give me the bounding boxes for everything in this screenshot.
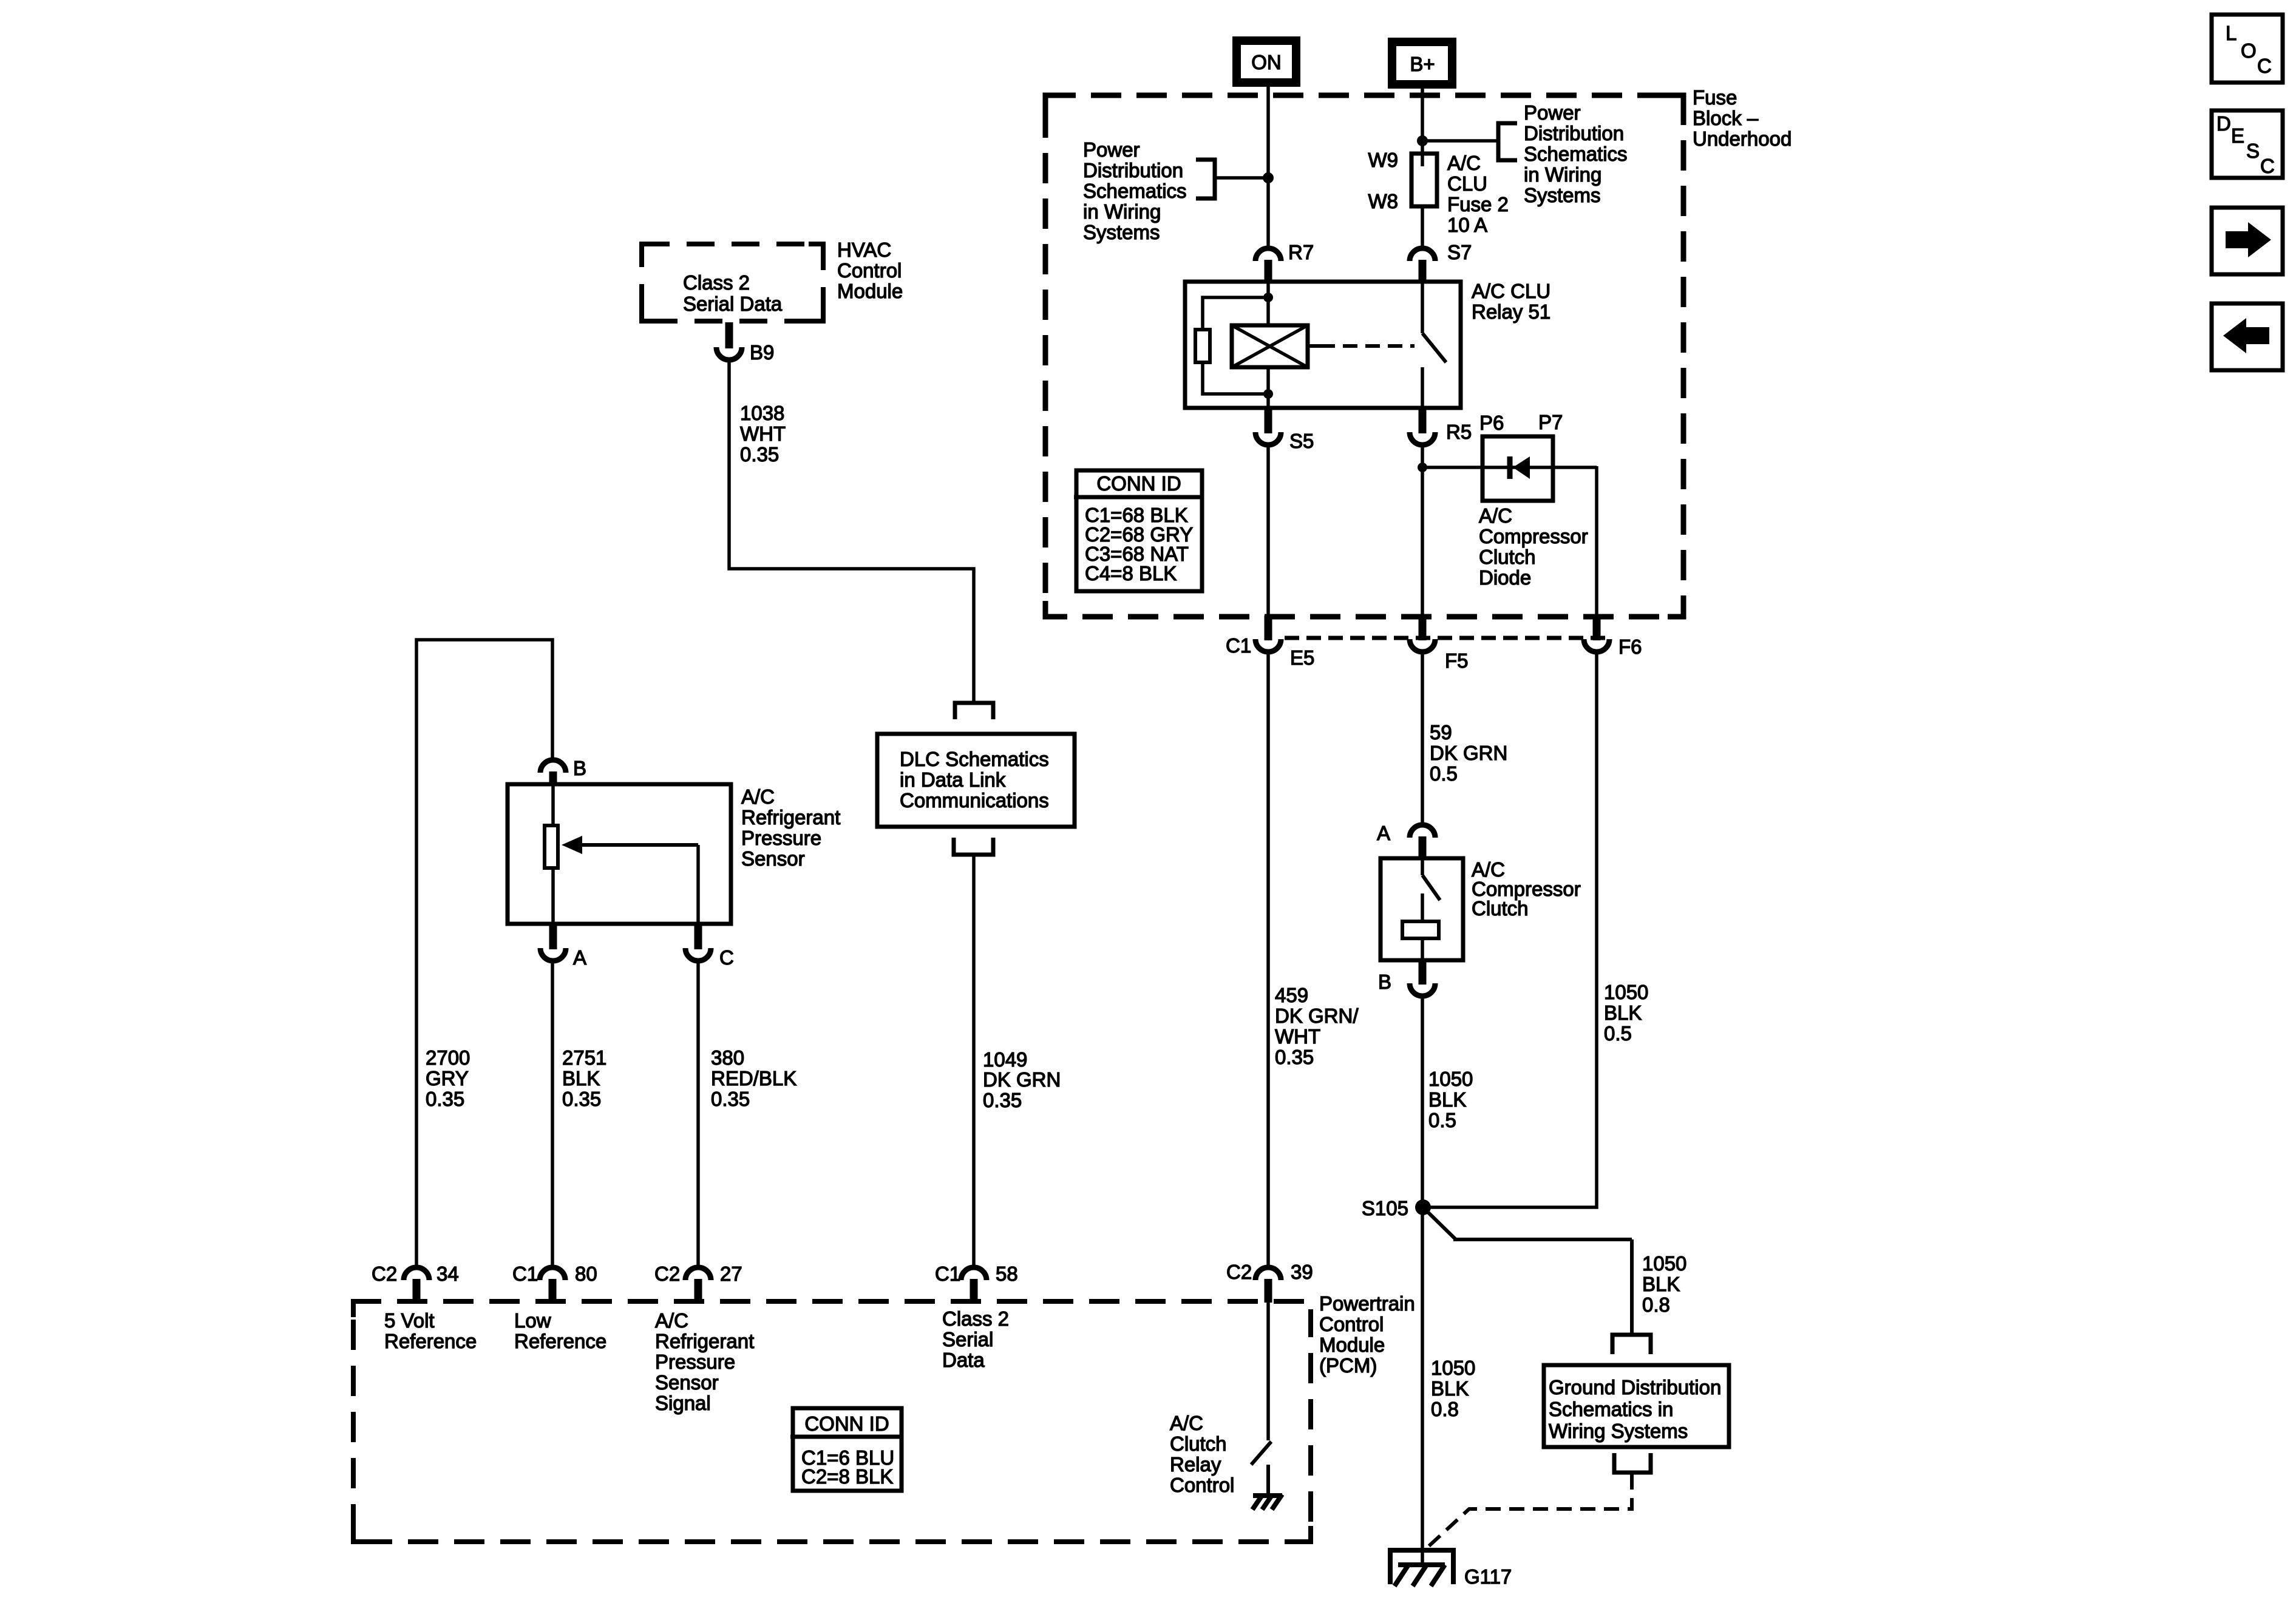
svg-text:2700: 2700 [426, 1046, 470, 1069]
node splice S105 [1415, 1199, 1431, 1215]
clutch switch blade [1422, 875, 1440, 900]
fuse block corner dashes [1045, 95, 1683, 617]
wire branch down to bracket [1630, 1239, 1634, 1333]
svg-text:A/C CLU: A/C CLU [1472, 280, 1550, 302]
svg-text:Control: Control [1170, 1474, 1234, 1496]
svg-text:A: A [1377, 822, 1390, 844]
svg-text:Sensor: Sensor [741, 847, 805, 870]
svg-text:Clutch: Clutch [1472, 897, 1529, 920]
wire resistor loop bottom [1203, 363, 1268, 394]
icon arrow-right box [2212, 208, 2283, 274]
off-page bracket below ground distribution [1614, 1453, 1651, 1473]
svg-text:Relay: Relay [1170, 1453, 1221, 1476]
svg-text:CLU: CLU [1447, 172, 1487, 195]
svg-text:BLK: BLK [1642, 1273, 1680, 1295]
svg-text:Serial: Serial [942, 1328, 993, 1351]
svg-text:Fuse 2: Fuse 2 [1447, 193, 1509, 215]
svg-text:DLC Schematics: DLC Schematics [900, 748, 1049, 770]
svg-text:S105: S105 [1362, 1197, 1408, 1219]
label A/C Refrigerant Pressure Sensor [741, 785, 840, 870]
svg-text:G117: G117 [1464, 1565, 1512, 1588]
label A/C Refrigerant Pressure Sensor Signal [655, 1309, 754, 1414]
svg-text:DK GRN/: DK GRN/ [1275, 1005, 1359, 1027]
connector pin A clutch [1377, 822, 1435, 858]
svg-text:1038: 1038 [740, 402, 784, 424]
fuse F2 A/C CLU Fuse 2 10A [1411, 153, 1437, 206]
label fuse value [1447, 152, 1509, 236]
svg-text:E: E [2231, 124, 2244, 147]
svg-text:Signal: Signal [655, 1392, 711, 1414]
svg-text:Distribution: Distribution [1083, 159, 1183, 181]
power symbol ON [1237, 41, 1296, 83]
svg-text:W9: W9 [1368, 149, 1399, 171]
svg-text:Class 2: Class 2 [942, 1307, 1009, 1330]
wire diode branch horizontal [1422, 466, 1597, 469]
svg-text:P7: P7 [1538, 411, 1563, 433]
svg-text:C2: C2 [654, 1263, 680, 1285]
svg-text:C2: C2 [372, 1263, 397, 1285]
wire ON down [1266, 87, 1270, 246]
DLC schematics box [877, 734, 1075, 827]
svg-text:Schematics: Schematics [1524, 143, 1628, 165]
wire F6 down and left to S105 [1428, 652, 1597, 1207]
svg-text:58: 58 [996, 1263, 1018, 1285]
svg-text:Clutch: Clutch [1170, 1432, 1227, 1455]
svg-text:1050: 1050 [1428, 1068, 1473, 1090]
svg-text:Pressure: Pressure [655, 1351, 735, 1373]
potentiometer wiper arrow [562, 836, 698, 854]
label 1038 WHT 0.35 [740, 402, 786, 466]
node coil top junction [1263, 293, 1273, 302]
label 1049 DK GRN 0.35 [983, 1048, 1061, 1111]
svg-text:10 A: 10 A [1447, 214, 1487, 236]
svg-text:R5: R5 [1446, 421, 1472, 443]
svg-text:B+: B+ [1410, 53, 1435, 75]
svg-text:1049: 1049 [983, 1048, 1027, 1071]
potentiometer sensor [545, 825, 558, 868]
label 59 DK GRN 0.5 [1430, 721, 1507, 785]
relay control switch lower pin [1266, 1465, 1270, 1494]
wire resistor loop top [1203, 297, 1268, 329]
chassis ground PCM [1252, 1494, 1282, 1510]
svg-text:1050: 1050 [1604, 981, 1648, 1003]
connector pin A sensor [540, 925, 586, 969]
wire wiper down [696, 845, 700, 926]
wire sensor pot to bottom [551, 870, 555, 926]
svg-text:C4=8 BLK: C4=8 BLK [1085, 562, 1177, 585]
svg-text:B: B [1378, 971, 1391, 993]
clutch coil [1402, 921, 1439, 938]
svg-text:Control: Control [837, 259, 902, 282]
svg-text:CONN ID: CONN ID [1096, 472, 1181, 495]
svg-text:Sensor: Sensor [655, 1371, 719, 1394]
svg-text:O: O [2241, 39, 2257, 62]
svg-text:Distribution: Distribution [1524, 122, 1624, 144]
fuse block underhood dashed border [1045, 95, 1683, 617]
svg-text:A/C: A/C [1447, 152, 1481, 174]
svg-text:(PCM): (PCM) [1319, 1354, 1377, 1377]
wire branch horizontal [1453, 1238, 1632, 1241]
connector pin C2-34 [372, 1263, 459, 1303]
svg-text:W8: W8 [1368, 190, 1399, 212]
label Low Reference [514, 1309, 606, 1352]
label 1050 BLK 0.8 main [1431, 1357, 1475, 1420]
svg-text:Clutch: Clutch [1479, 546, 1536, 568]
svg-text:0.5: 0.5 [1430, 762, 1458, 785]
connector pin R5 [1410, 408, 1472, 445]
svg-text:L: L [2226, 22, 2237, 44]
svg-text:in Wiring: in Wiring [1524, 163, 1601, 186]
clutch switch wire upper [1421, 858, 1424, 875]
label power distribution right [1524, 101, 1628, 206]
svg-text:0.35: 0.35 [711, 1088, 750, 1110]
ground distribution schematics box [1544, 1365, 1729, 1447]
svg-text:5 Volt: 5 Volt [384, 1309, 435, 1332]
relay coil crossed box [1232, 325, 1308, 367]
svg-text:2751: 2751 [562, 1046, 606, 1069]
svg-text:F6: F6 [1618, 636, 1642, 658]
HVAC box corner dashes [642, 244, 823, 321]
label 2700 GRY 0.35 [426, 1046, 470, 1110]
svg-text:S7: S7 [1447, 241, 1472, 263]
svg-text:Module: Module [1319, 1334, 1385, 1356]
wire coil to relay bottom [1266, 369, 1270, 410]
resistor R relay [1195, 330, 1210, 362]
relay control switch blade [1251, 1442, 1271, 1465]
svg-text:Module: Module [837, 280, 903, 302]
svg-text:CONN ID: CONN ID [804, 1412, 889, 1435]
svg-text:WHT: WHT [740, 422, 786, 445]
connector pin C2-27 [654, 1263, 742, 1303]
svg-text:0.8: 0.8 [1431, 1398, 1459, 1420]
wire F5 down to clutch A [1421, 652, 1424, 824]
svg-text:in Wiring: in Wiring [1083, 200, 1161, 223]
label Powertrain Control Module (PCM) [1319, 1292, 1415, 1377]
svg-text:27: 27 [720, 1263, 742, 1285]
svg-text:Wiring Systems: Wiring Systems [1549, 1420, 1688, 1442]
PCM dashed border [353, 1301, 1311, 1542]
label HVAC Control Module [837, 239, 903, 302]
svg-text:Control: Control [1319, 1313, 1384, 1335]
svg-text:DK GRN: DK GRN [1430, 742, 1507, 764]
svg-text:E5: E5 [1290, 646, 1314, 669]
wire 1038 WHT B9 to DLC [729, 360, 974, 704]
connector pin S5 [1255, 408, 1314, 452]
off-page bracket below DLC [954, 838, 993, 855]
label 1050 BLK 0.5 right [1604, 981, 1648, 1045]
svg-text:80: 80 [575, 1263, 597, 1285]
svg-text:BLK: BLK [1604, 1002, 1642, 1024]
svg-text:BLK: BLK [562, 1067, 600, 1090]
connector pin C2-39 [1226, 1261, 1313, 1303]
relay U51 A/C CLU Relay 51 box [1185, 282, 1461, 408]
svg-text:RED/BLK: RED/BLK [711, 1067, 796, 1090]
connector pin S7 [1410, 241, 1472, 280]
svg-text:0.5: 0.5 [1604, 1022, 1632, 1045]
node junction on B+ wire [1417, 135, 1428, 146]
svg-text:D: D [2216, 112, 2231, 135]
wire relay linkage [1309, 344, 1320, 348]
svg-text:S5: S5 [1289, 430, 1314, 452]
label power distribution left [1083, 138, 1187, 243]
svg-text:Data: Data [942, 1349, 985, 1371]
label 380 RED/BLK 0.35 [711, 1046, 796, 1110]
svg-text:Refrigerant: Refrigerant [655, 1330, 754, 1352]
connector pin F5 [1410, 615, 1469, 672]
label Class 2 Serial Data [683, 271, 783, 315]
svg-text:34: 34 [436, 1263, 459, 1285]
svg-text:DK GRN: DK GRN [983, 1068, 1061, 1091]
node coil bottom junction [1263, 389, 1273, 399]
node junction on ON wire [1263, 172, 1274, 183]
svg-text:C: C [719, 946, 734, 969]
svg-text:C: C [2257, 55, 2272, 77]
wire sensor B internal [551, 782, 555, 825]
wire C2-39 to relay control switch [1266, 1303, 1270, 1440]
svg-text:C2=8 BLK: C2=8 BLK [801, 1465, 893, 1488]
svg-text:HVAC: HVAC [837, 239, 891, 261]
off-page bracket above DLC [955, 703, 993, 719]
connector pin B9 [716, 322, 774, 364]
label 1050 BLK 0.8 branch [1642, 1252, 1686, 1316]
off-page bracket left [1196, 160, 1215, 198]
connector pin C1-58 [935, 1263, 1018, 1303]
svg-text:Systems: Systems [1083, 221, 1160, 243]
wire E5 down to C2-39 [1266, 652, 1270, 1267]
svg-text:Pressure: Pressure [741, 827, 821, 849]
label A/C Compressor Clutch [1472, 858, 1581, 920]
svg-text:Schematics: Schematics [1083, 180, 1187, 202]
ground G117 [1388, 1550, 1512, 1588]
A/C refrigerant pressure sensor box [508, 784, 731, 924]
wire 1049 DK GRN DLC to C1-58 [972, 856, 976, 1267]
HVAC control module dashed box [642, 244, 823, 321]
svg-text:F5: F5 [1445, 649, 1469, 672]
node diode junction [1418, 463, 1427, 472]
svg-text:Block –: Block – [1693, 107, 1759, 129]
svg-text:C1: C1 [935, 1263, 960, 1285]
svg-text:P6: P6 [1479, 412, 1504, 434]
A/C compressor clutch box [1381, 858, 1463, 960]
svg-text:WHT: WHT [1275, 1025, 1320, 1048]
svg-text:Ground Distribution: Ground Distribution [1549, 1376, 1721, 1398]
off-page bracket right [1498, 123, 1517, 160]
svg-text:Powertrain: Powertrain [1319, 1292, 1415, 1315]
svg-text:C1: C1 [1226, 634, 1251, 657]
svg-text:ON: ON [1251, 51, 1282, 73]
connector pin C1-80 [512, 1263, 597, 1303]
svg-text:0.8: 0.8 [1642, 1293, 1670, 1316]
wire A down to C1-80 [551, 961, 554, 1267]
wire C down to C2-27 [696, 961, 700, 1267]
svg-text:Communications: Communications [900, 789, 1049, 812]
wire R5 down to F5 [1421, 445, 1424, 617]
svg-text:BLK: BLK [1428, 1088, 1466, 1111]
diode D1 A/C compressor clutch diode [1483, 436, 1553, 501]
svg-text:Reference: Reference [384, 1330, 477, 1352]
svg-text:A/C: A/C [655, 1309, 688, 1332]
wire 5V reference top run [416, 640, 552, 1267]
svg-text:Serial Data: Serial Data [683, 293, 783, 315]
connector pin C sensor [685, 925, 734, 969]
svg-text:A/C: A/C [1479, 504, 1512, 527]
wire relay coil feed [1266, 280, 1270, 324]
icon arrow-left box [2212, 303, 2283, 370]
wire relay switch upper [1421, 280, 1424, 333]
connector pin B sensor [540, 757, 586, 784]
wire B+ down [1421, 89, 1424, 153]
power symbol B+ [1392, 42, 1452, 84]
svg-text:0.35: 0.35 [426, 1088, 464, 1110]
svg-text:B9: B9 [750, 341, 774, 364]
connector pin E5 [1255, 615, 1314, 669]
CONN ID table fuse block [1074, 470, 1204, 591]
svg-text:GRY: GRY [426, 1067, 469, 1090]
svg-text:Class 2: Class 2 [683, 271, 750, 294]
svg-text:Systems: Systems [1524, 184, 1601, 206]
svg-text:Underhood: Underhood [1693, 127, 1792, 150]
relay switch blade [1422, 333, 1446, 362]
label A/C Compressor Clutch Diode [1479, 504, 1588, 589]
wire fuse to S7 [1421, 208, 1424, 246]
svg-text:S: S [2246, 140, 2260, 162]
label 459 DK GRN/ WHT 0.35 [1275, 984, 1359, 1068]
clutch switch wire lower [1421, 893, 1424, 921]
label Class 2 Serial Data PCM [942, 1307, 1009, 1371]
wire clutch B down through S105 to G117 [1421, 996, 1424, 1566]
svg-text:Compressor: Compressor [1479, 525, 1588, 547]
svg-text:A/C: A/C [1170, 1412, 1203, 1434]
svg-text:A: A [573, 946, 586, 969]
connector pin F6 [1584, 615, 1642, 658]
label 1050 BLK 0.5 [1428, 1068, 1473, 1131]
svg-text:B: B [573, 757, 586, 779]
connector pin B clutch [1378, 961, 1435, 996]
svg-text:C2: C2 [1226, 1261, 1252, 1283]
dashed ground reference path [1423, 1474, 1632, 1551]
svg-text:459: 459 [1275, 984, 1308, 1006]
wire junction to bracket [1422, 139, 1498, 143]
svg-text:39: 39 [1291, 1261, 1313, 1283]
svg-text:0.5: 0.5 [1428, 1109, 1456, 1131]
label 2751 BLK 0.35 [562, 1046, 606, 1110]
svg-text:1050: 1050 [1431, 1357, 1475, 1379]
svg-text:Diode: Diode [1479, 566, 1531, 589]
label A/C Clutch Relay Control [1170, 1412, 1234, 1496]
svg-text:380: 380 [711, 1046, 744, 1069]
label Fuse Block - Underhood [1693, 86, 1792, 150]
connector pin R7 [1255, 241, 1314, 280]
svg-text:Relay 51: Relay 51 [1472, 300, 1550, 323]
wire S5 down to E5 [1266, 445, 1270, 617]
svg-text:Schematics in: Schematics in [1549, 1398, 1673, 1420]
svg-text:in Data Link: in Data Link [900, 768, 1006, 791]
svg-text:0.35: 0.35 [562, 1088, 601, 1110]
icon DESC box [2212, 110, 2283, 178]
svg-text:0.35: 0.35 [740, 443, 779, 466]
wire relay switch lower [1421, 367, 1424, 410]
label A/C CLU Relay 51 [1472, 280, 1550, 323]
svg-text:Reference: Reference [514, 1330, 606, 1352]
svg-text:A/C: A/C [741, 785, 775, 808]
wire S105 diagonal branch [1427, 1211, 1455, 1239]
svg-text:Power: Power [1524, 101, 1581, 124]
connector C1 dotted row [1285, 636, 1609, 640]
svg-text:R7: R7 [1288, 241, 1314, 263]
PCM corner dashes [353, 1301, 1311, 1542]
svg-text:BLK: BLK [1431, 1377, 1469, 1400]
svg-text:0.35: 0.35 [983, 1089, 1022, 1111]
svg-text:59: 59 [1430, 721, 1452, 744]
svg-text:Low: Low [514, 1309, 551, 1332]
wire diode branch down to F6 [1595, 466, 1598, 617]
svg-text:Refrigerant: Refrigerant [741, 806, 840, 829]
wire bracket to ON wire [1215, 176, 1268, 180]
svg-text:Power: Power [1083, 138, 1140, 161]
wire coil to box bottom [1421, 940, 1424, 962]
icon LOC box [2212, 15, 2283, 83]
svg-text:Fuse: Fuse [1693, 86, 1737, 109]
svg-text:0.35: 0.35 [1275, 1046, 1314, 1068]
svg-text:C: C [2260, 155, 2275, 177]
off-page bracket to ground distribution [1612, 1335, 1651, 1354]
svg-text:1050: 1050 [1642, 1252, 1686, 1275]
svg-text:C1: C1 [512, 1263, 538, 1285]
label 5 Volt Reference [384, 1309, 477, 1352]
CONN ID table PCM [790, 1408, 903, 1491]
